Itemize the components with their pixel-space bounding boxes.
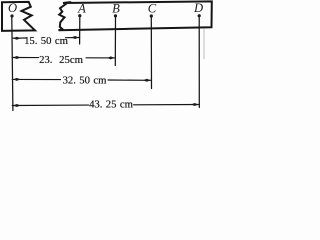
svg-text:O: O [8,1,17,15]
svg-text:23. 25cm: 23. 25cm [39,54,84,66]
arrowhead right, dimension 15.50 cm [71,36,79,39]
arrowhead left, dimension 43.25 cm [13,104,21,107]
svg-text:A: A [77,1,86,15]
ruler right broken piece with zigzag break edge [59,1,212,30]
dimension line O-D (43.25 cm), left and right segments [12,104,88,106]
arrowhead left, dimension 15.50 cm [13,37,21,40]
point B dot [114,14,117,17]
svg-text:43. 25 cm: 43. 25 cm [89,99,134,111]
dimension line O-B (23.25 cm), left and right segments [12,57,38,59]
arrowhead left, dimension 23.25 cm [13,56,21,59]
point A dot [78,14,81,17]
svg-text:B: B [112,2,120,16]
dimension line O-C (32.50 cm), left and right segments [12,78,60,80]
extension line from point B [114,17,116,66]
svg-text:32. 50 cm: 32. 50 cm [63,75,108,87]
arrowhead left, dimension 32.50 cm [13,78,21,81]
svg-text:D: D [193,1,203,15]
extension line from point C [150,17,152,89]
point D dot [198,14,201,17]
point O dot [10,14,13,17]
faint scan artifact line below ruler right end [203,29,205,60]
extension line from point O [12,17,13,111]
extension line from point D [198,17,200,108]
extension line from point A [79,17,81,44]
dimension line O-A (15.50 cm), left and right segments [12,37,26,39]
arrowhead right, dimension 43.25 cm [191,103,199,106]
svg-text:15. 50 cm: 15. 50 cm [24,35,69,47]
arrowhead right, dimension 32.50 cm [143,79,151,82]
svg-text:C: C [148,1,157,15]
arrowhead right, dimension 23.25 cm [107,56,115,59]
point C dot [150,14,153,17]
ruler left broken piece with zigzag break edge [2,2,35,31]
